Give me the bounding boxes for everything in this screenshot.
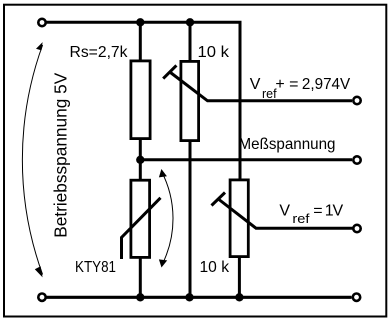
wire bottom rail <box>46 296 352 299</box>
svg-text:10 k: 10 k <box>198 44 231 61</box>
wire branch 3 lower segment (lower 10k pot) <box>238 179 241 298</box>
arrowhead of P2 wiper <box>212 193 226 206</box>
svg-text:KTY81: KTY81 <box>75 259 116 276</box>
terminal Vref+ <box>353 97 360 104</box>
terminal top left <box>38 19 45 26</box>
wiper wire of P2 to Vref terminal <box>218 199 352 228</box>
svg-text:+ =: + = <box>275 76 298 93</box>
arrowhead arc2 top <box>159 169 167 177</box>
svg-text:= 1V: = 1V <box>313 203 343 220</box>
junction bottom rail / branch2 <box>185 293 193 301</box>
resistor R1 Rs=2,7k body <box>131 61 150 139</box>
svg-text:2,974V: 2,974V <box>302 76 351 93</box>
arrowhead of P1 wiper <box>163 65 176 78</box>
annotation arc supply voltage <box>22 45 42 275</box>
svg-text:10 k: 10 k <box>200 259 230 276</box>
svg-text:Meßspannung: Meßspannung <box>239 136 336 153</box>
terminal Vref <box>353 225 360 232</box>
svg-text:ref: ref <box>292 212 310 226</box>
svg-text:V: V <box>250 76 261 93</box>
wire branch 1 (Rs + KTY81) <box>139 22 142 297</box>
arrowhead arc top <box>36 42 43 50</box>
svg-text:V: V <box>279 203 290 220</box>
potentiometer P1 10k body <box>181 61 199 140</box>
svg-text:Betriebsspannung 5V: Betriebsspannung 5V <box>51 72 71 237</box>
thermistor KTY81 body <box>131 180 150 257</box>
arrowhead arc2 bottom <box>159 259 167 267</box>
potentiometer P2 10k body <box>230 180 248 257</box>
annotation arc KTY81 variability <box>161 171 173 265</box>
junction bottom rail / branch3 <box>235 293 243 301</box>
terminal Messspannung <box>353 156 360 163</box>
svg-text:Rs=2,7k: Rs=2,7k <box>70 44 129 61</box>
wiper wire of P1 to Vref+ terminal <box>170 72 352 101</box>
junction node Messspannung <box>136 156 144 164</box>
junction bottom rail / branch1 <box>136 293 144 301</box>
terminal bottom right <box>353 294 360 301</box>
wire Messspannung <box>140 158 352 161</box>
junction top rail / branch2 <box>186 18 194 26</box>
terminal bottom left <box>38 294 45 301</box>
junction top rail / branch1 <box>136 18 144 26</box>
wire branch 2 (upper 10k pot) <box>189 22 192 297</box>
arrowhead arc bottom <box>35 266 43 277</box>
wire top rail from left terminal to corner, down right branch <box>46 22 240 178</box>
thermistor diagonal stroke <box>122 198 161 259</box>
